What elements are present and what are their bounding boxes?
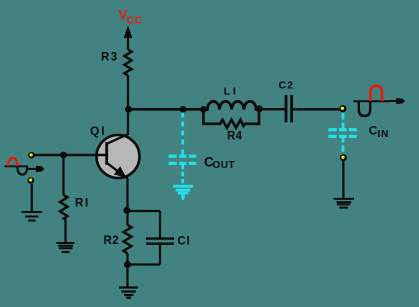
wire emitter down [126,178,128,211]
capacitor C1 [146,239,174,244]
resistor R3 [124,50,131,76]
svg-text:Q: Q [90,124,99,138]
node base/R1 junction [60,152,67,159]
wire bottom horizontal to C1 [128,263,161,265]
node collector junction [125,106,132,113]
svg-text:R3: R3 [101,51,119,63]
transistor Q1 [97,134,140,178]
svg-text:R2: R2 [104,235,120,247]
capacitor Cin (phantom, cyan) [342,113,345,152]
wire collector bus [127,108,202,111]
Vcc label [119,7,143,27]
svg-text:C2: C2 [279,79,294,91]
node emitter junction [123,207,130,214]
wire tank to C2 [259,108,285,110]
label C1 [177,235,189,247]
input sine symbol [5,158,28,175]
wire C2 to output [292,108,340,110]
resistor R1 [60,195,68,220]
Vcc arrow [124,26,133,39]
svg-text:C: C [369,123,378,137]
terminal Cin bottom [340,154,347,161]
resistor R2 [124,225,132,254]
svg-text:IN: IN [378,129,390,140]
wire emitter junction to C1 branch [128,210,161,212]
ground Cout (cyan) [173,186,193,200]
label R1 [75,198,88,210]
wire R2 top lead [126,210,128,225]
wire R1 to ground [64,219,66,243]
node tank left [200,106,207,113]
input arrow [27,166,44,172]
svg-text:I: I [101,124,104,138]
terminal output [339,105,346,112]
ground output [334,199,354,208]
resistor R4 (parallel branch) [203,109,259,127]
capacitor C2 [286,95,292,122]
ground R1 [56,243,74,252]
ground R2/C1 [119,288,138,298]
wire Cin terminal to ground [342,161,344,199]
svg-text:OUT: OUT [213,160,236,171]
wire input bottom to ground [31,184,33,212]
wire R3 to collector node [127,76,129,136]
svg-text:I: I [187,235,190,247]
wire C1 bottom lead [159,244,161,265]
label L1 [224,85,236,97]
inductor L1 [203,101,259,109]
svg-text:R: R [75,198,84,210]
terminal input bottom [28,177,35,184]
svg-text:R4: R4 [227,131,243,143]
svg-text:C: C [177,235,185,247]
node tank right [256,105,263,112]
svg-text:I: I [85,198,88,210]
svg-text:L: L [224,85,231,97]
svg-text:CC: CC [127,15,143,27]
capacitor Cout (phantom, cyan) [181,113,184,186]
wire junction to ground [126,265,128,288]
label Q1 [90,124,105,138]
terminal input top [28,152,35,159]
wire R2 bottom lead [126,254,128,266]
wire base [33,154,106,156]
node bottom junction [124,261,131,268]
wire R1 branch [62,155,64,195]
wire C1 top lead [159,211,161,239]
svg-text:I: I [233,85,236,97]
node Cout tap [180,106,187,113]
wire Vcc to R3 [127,36,129,50]
output sine symbol [354,86,391,116]
ground input [22,212,42,221]
output arrow [390,98,405,104]
